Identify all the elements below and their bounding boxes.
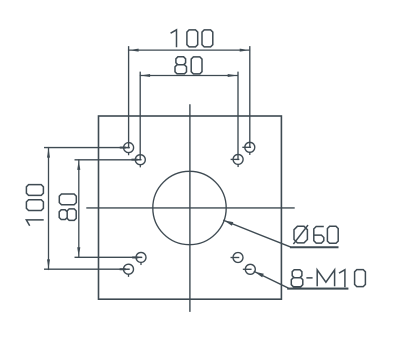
extension line, top dim 80, right (to hole h6)	[237, 72, 239, 159]
underline of O60 label	[291, 246, 338, 248]
center-mark tick below hole h3	[128, 274, 130, 276]
dimension line, 80 vertical (left)	[78, 160, 80, 257]
dimension text "100" (left, rotated)	[26, 185, 43, 226]
extension line, top dim 80, left (to hole h5)	[139, 72, 141, 159]
M10 hole (100-pattern, top-right)	[243, 142, 255, 152]
plate outline (150x150 square)	[99, 116, 282, 299]
M10 hole (80-pattern, bottom-right)	[231, 253, 243, 263]
center-mark dash left of hole h3	[121, 268, 125, 270]
extension line, left dim 80, top (to hole h5)	[75, 159, 140, 161]
horizontal centerline	[87, 207, 294, 209]
extension line, left dim 80, bottom (to hole h7)	[75, 256, 141, 258]
underline of 8-M10 label	[288, 288, 347, 290]
dimension line, 100 vertical (left)	[48, 148, 50, 270]
M10 hole (100-pattern, top-left)	[122, 143, 134, 153]
label text "8-M10"	[291, 270, 365, 288]
leader line to M10 hole h4	[254, 272, 347, 289]
dimension text "80" (top)	[175, 57, 202, 74]
dimension text "80" (left, rotated)	[59, 194, 76, 220]
extension line, left dim 100, top (to hole h1)	[45, 147, 129, 149]
M10 hole (100-pattern, bottom-left)	[122, 264, 134, 274]
center-mark tick below hole h7	[140, 263, 142, 265]
dimension line, 100 horizontal (top)	[129, 49, 250, 51]
center-mark tick below hole h1	[128, 153, 130, 155]
center-mark dash left of hole h7	[133, 256, 137, 258]
extension line, top dim 100, right (to hole h2)	[249, 47, 251, 148]
center-mark tick below hole h6	[237, 165, 239, 167]
center-mark dash left of hole h1	[121, 147, 125, 149]
extension line, left dim 100, bottom (to hole h3)	[45, 268, 129, 270]
center-mark tick below hole h5	[139, 165, 141, 167]
extension line, top dim 100, left (to hole h1)	[128, 47, 130, 148]
center hole circle (dia 60)	[153, 171, 226, 244]
dimension line, 80 horizontal (top)	[140, 75, 238, 77]
label text "O60"	[293, 225, 338, 244]
M10 hole (100-pattern, bottom-right)	[244, 264, 256, 274]
M10 hole (80-pattern, bottom-left)	[134, 252, 146, 262]
center-mark dash left of hole h5	[133, 159, 137, 161]
M10 hole (80-pattern, top-left)	[134, 155, 146, 165]
vertical centerline	[189, 105, 191, 311]
M10 hole (80-pattern, top-right)	[231, 154, 243, 164]
dimension text "100" (top)	[171, 30, 213, 47]
center-mark tick below hole h2	[249, 153, 251, 155]
leader line to dia-60 circle	[224, 220, 338, 247]
